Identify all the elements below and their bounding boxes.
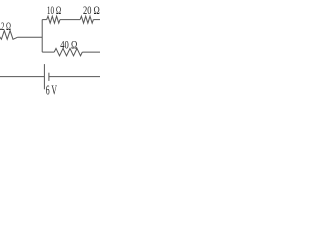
resistor R1 2-ohm zigzag (cut at left edge) — [0, 31, 17, 40]
svg-text:20 Ω: 20 Ω — [83, 5, 100, 17]
resistor R2 10-ohm zigzag — [47, 16, 60, 23]
svg-text:40 Ω: 40 Ω — [60, 38, 77, 52]
wire top branch left — [42, 19, 47, 21]
wire R3 to right edge — [93, 19, 100, 21]
battery B1 long plate — [43, 64, 45, 89]
node A left vertical connector — [41, 20, 43, 53]
wire bottom branch left — [42, 51, 54, 53]
resistor R3 20-ohm zigzag — [80, 16, 93, 23]
svg-text:2 Ω: 2 Ω — [1, 21, 11, 33]
resistor R4 40-ohm zigzag — [54, 48, 82, 55]
wire R4 to right edge — [82, 51, 100, 53]
svg-text:6 V: 6 V — [46, 83, 57, 98]
svg-text:10 Ω: 10 Ω — [47, 5, 61, 17]
wire R1 to node A — [17, 36, 42, 38]
wire between R2 and R3 — [60, 19, 80, 21]
battery B1 short plate — [48, 73, 50, 81]
wire battery left — [0, 76, 44, 78]
wire battery right — [49, 76, 101, 78]
